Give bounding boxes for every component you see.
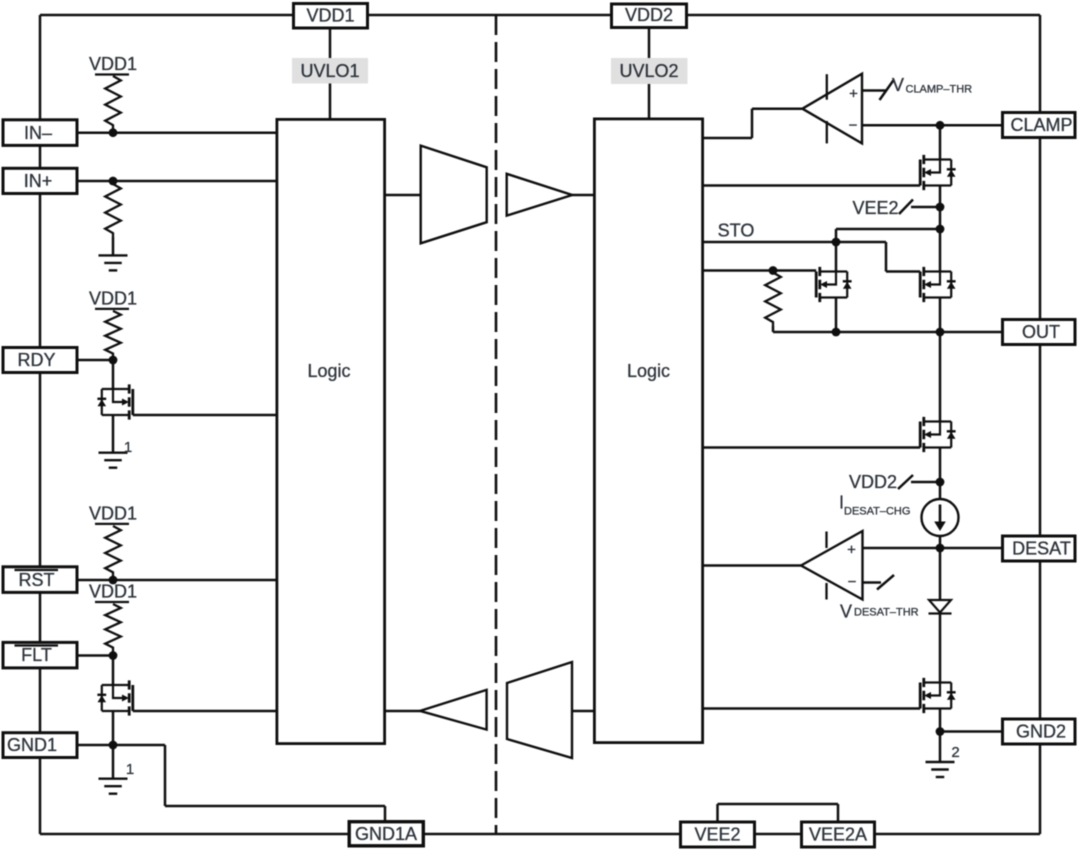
svg-text:VEE2: VEE2 xyxy=(694,825,740,845)
svg-text:VEE2: VEE2 xyxy=(852,198,898,218)
svg-text:−: − xyxy=(848,574,857,591)
svg-text:VDD1: VDD1 xyxy=(89,54,137,74)
svg-text:VDD1: VDD1 xyxy=(89,289,137,309)
svg-text:DESAT–THR: DESAT–THR xyxy=(854,607,919,619)
svg-text:VDD2: VDD2 xyxy=(849,472,897,492)
svg-text:FLT: FLT xyxy=(21,645,52,665)
svg-text:STO: STO xyxy=(718,221,755,241)
svg-text:DESAT–CHG: DESAT–CHG xyxy=(844,506,910,518)
svg-text:V: V xyxy=(892,75,904,95)
svg-text:2: 2 xyxy=(951,744,959,761)
svg-text:−: − xyxy=(849,117,858,134)
svg-text:RDY: RDY xyxy=(17,350,55,370)
svg-text:VDD1: VDD1 xyxy=(306,6,354,26)
svg-text:Logic: Logic xyxy=(307,361,350,381)
svg-text:UVLO1: UVLO1 xyxy=(300,61,359,81)
svg-text:VDD1: VDD1 xyxy=(89,582,137,602)
svg-text:GND1A: GND1A xyxy=(355,824,417,844)
svg-text:+: + xyxy=(847,542,856,559)
svg-text:UVLO2: UVLO2 xyxy=(619,61,678,81)
svg-text:V: V xyxy=(840,602,852,622)
svg-text:VEE2A: VEE2A xyxy=(809,825,867,845)
svg-text:RST: RST xyxy=(19,570,55,590)
svg-text:VDD1: VDD1 xyxy=(89,504,137,524)
svg-text:IN–: IN– xyxy=(24,123,52,143)
svg-text:Logic: Logic xyxy=(627,361,670,381)
svg-text:1: 1 xyxy=(126,761,134,778)
svg-text:GND1: GND1 xyxy=(7,735,57,755)
svg-text:DESAT: DESAT xyxy=(1012,539,1071,559)
svg-text:+: + xyxy=(849,86,858,103)
svg-text:IN+: IN+ xyxy=(24,171,53,191)
svg-text:OUT: OUT xyxy=(1022,322,1060,342)
svg-text:CLAMP: CLAMP xyxy=(1010,115,1072,135)
svg-text:CLAMP–THR: CLAMP–THR xyxy=(906,84,973,96)
svg-text:1: 1 xyxy=(124,439,132,456)
svg-text:GND2: GND2 xyxy=(1016,722,1066,742)
svg-text:VDD2: VDD2 xyxy=(625,5,673,25)
